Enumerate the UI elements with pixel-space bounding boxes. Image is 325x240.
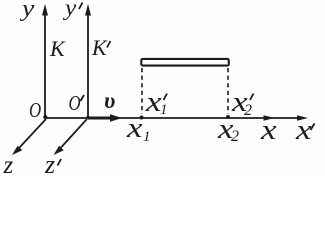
svg-text:z: z [3, 152, 14, 179]
label x2' [231, 86, 254, 119]
svg-text:υ: υ [104, 88, 115, 113]
label O' [69, 92, 85, 115]
svg-text:y: y [19, 0, 35, 22]
svg-text:O: O [69, 92, 81, 115]
svg-text:O: O [29, 99, 41, 122]
z' axis [54, 119, 88, 155]
rod (moving rod, drawn above x axis) [141, 59, 229, 66]
label z' [44, 150, 61, 179]
svg-text:K: K [49, 36, 66, 61]
svg-text:1: 1 [160, 102, 168, 118]
y axis of frame K [42, 4, 48, 118]
node x1 on axis [140, 116, 144, 120]
origin O node [43, 115, 47, 119]
label y' [62, 0, 83, 21]
svg-text:1: 1 [143, 129, 151, 145]
node x2 on axis [226, 115, 230, 119]
y' axis of frame K' [85, 4, 91, 118]
svg-text:2: 2 [231, 128, 239, 145]
svg-text:K: K [91, 35, 108, 60]
svg-text:z: z [44, 150, 55, 179]
svg-text:x: x [126, 112, 143, 143]
velocity vector v [88, 114, 122, 122]
origin O' node [86, 116, 89, 119]
dashed projection line from rod left end (x1') [141, 68, 143, 114]
dashed projection line from rod right end (x2') [227, 68, 229, 114]
svg-text:y: y [62, 0, 77, 21]
label K' [91, 35, 111, 60]
svg-text:2: 2 [244, 102, 252, 119]
z axis [12, 119, 46, 155]
label x2 [217, 113, 239, 145]
label x1 [126, 112, 151, 145]
x axis (shared, with x and x' arrowheads) [45, 115, 308, 120]
svg-text:x: x [295, 114, 312, 145]
label x' [295, 114, 315, 145]
svg-text:x: x [260, 114, 277, 145]
label x1' [145, 86, 168, 118]
